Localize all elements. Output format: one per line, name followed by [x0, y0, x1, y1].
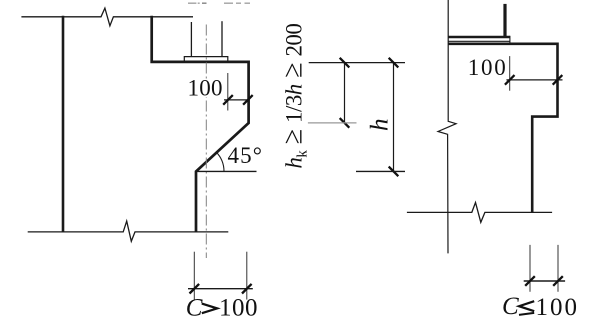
svg-text:100: 100 [188, 76, 223, 101]
svg-text:hk ≥ 1/3h ≥ 200: hk ≥ 1/3h ≥ 200 [278, 23, 311, 169]
svg-text:45°: 45° [228, 143, 263, 168]
svg-text:h: h [366, 119, 393, 132]
svg-text:C: C [186, 295, 203, 322]
svg-text:100: 100 [219, 295, 258, 322]
svg-text:100: 100 [536, 294, 578, 321]
svg-text:100: 100 [468, 55, 506, 80]
svg-text:C: C [502, 293, 519, 320]
